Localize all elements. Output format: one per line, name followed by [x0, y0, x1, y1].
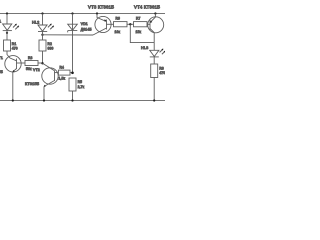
wire HL1 to R1 [6, 30, 8, 40]
svg-text:HL3: HL3 [141, 46, 148, 50]
resistor R4 [58, 70, 70, 75]
label R8 value [159, 66, 165, 75]
LED HL1 [3, 24, 19, 31]
label VD1 [81, 22, 93, 32]
wire VT3 collector to HL2 node [43, 34, 94, 36]
resistor R5 [69, 78, 76, 91]
wire R3 to node B [38, 62, 43, 64]
node HL2 cathode junction [41, 34, 43, 36]
node R8 ground junction [153, 99, 155, 101]
transistor VT3 [93, 14, 114, 36]
transistor VT4 [148, 14, 164, 43]
node VT4 emitter junction [154, 12, 156, 14]
transistor VT1 [5, 56, 25, 73]
label R2 value [48, 42, 54, 51]
wire R6 to node D [127, 23, 134, 25]
wire bottom ground rail [0, 100, 165, 102]
label R6 [115, 16, 121, 33]
wire R5 to ground [72, 91, 74, 101]
svg-text:VT4 КТ361Б: VT4 КТ361Б [134, 4, 160, 9]
resistor R1 [4, 40, 11, 51]
label VT1 (clipped at edge) [0, 56, 3, 60]
svg-text:VT2: VT2 [33, 68, 40, 72]
label HL2 [32, 21, 39, 25]
wire VT4 collector to HL3 [153, 43, 155, 51]
zener diode VD1 [68, 14, 78, 73]
label VT1 type (clipped at edge) [0, 70, 3, 74]
svg-text:470: 470 [12, 46, 18, 50]
svg-text:VD1: VD1 [81, 22, 88, 26]
label R1 value [12, 42, 18, 51]
node HL2 top junction [41, 12, 43, 14]
svg-text:15к: 15к [136, 30, 142, 34]
label R5 value [78, 80, 85, 89]
wire R1 to VT1 collector [7, 51, 17, 61]
wire node D to HL3 node [130, 24, 154, 42]
resistor R6 [114, 22, 128, 27]
wire HL2 anode drop [42, 14, 44, 26]
node D junction R6 R7 feedback [129, 23, 131, 25]
svg-text:1,5к: 1,5к [59, 77, 66, 81]
svg-text:R5: R5 [78, 80, 83, 84]
wire HL3 to R8 [153, 57, 155, 64]
label VT4 type [134, 4, 160, 9]
label KT315B [25, 82, 40, 86]
wire HL2 to R2 [42, 31, 44, 40]
node B junction R2 R3 VT2 collector [41, 62, 43, 64]
wire VT2 emitter to ground [43, 87, 45, 101]
svg-text:10к: 10к [115, 30, 121, 34]
svg-text:470: 470 [159, 71, 165, 75]
svg-text:680: 680 [48, 46, 54, 50]
svg-text:HL2: HL2 [32, 21, 39, 25]
transistor VT2 [42, 63, 59, 87]
LED HL3 [150, 49, 166, 57]
label VT2 [33, 68, 40, 72]
svg-text:R7: R7 [136, 16, 141, 20]
wire R2 to node B [42, 51, 44, 63]
node A junction VD1 R4 R5 [71, 72, 74, 75]
svg-text:R4: R4 [60, 66, 65, 70]
label HL3 [141, 46, 148, 50]
label VT3 type [88, 4, 114, 9]
svg-text:КТ315Б: КТ315Б [25, 82, 40, 86]
svg-text:R2: R2 [48, 42, 53, 46]
resistor R8 [151, 64, 158, 78]
resistor R3 [25, 61, 38, 66]
svg-text:R8: R8 [159, 66, 164, 70]
svg-text:R1: R1 [12, 42, 17, 46]
svg-text:VT1: VT1 [0, 56, 3, 60]
svg-text:Д814Б: Д814Б [81, 28, 93, 32]
resistor R7 [134, 22, 148, 27]
svg-text:56к: 56к [26, 67, 32, 71]
node VT3 emitter junction [96, 12, 98, 14]
svg-text:R3: R3 [28, 56, 33, 60]
node HL1 cathode junction [6, 32, 8, 34]
wire R8 to ground [153, 78, 155, 101]
wire top supply rail [0, 13, 165, 15]
node VT1 emitter ground junction [12, 99, 14, 101]
svg-text:КТ315Б: КТ315Б [0, 70, 3, 74]
node R5 ground junction [71, 99, 73, 101]
node VT2 emitter ground junction [43, 99, 45, 101]
svg-text:HL1: HL1 [0, 20, 1, 24]
wire VT1 emitter to ground [12, 72, 14, 101]
wire R4 to node A [70, 72, 73, 74]
label R7 [136, 16, 142, 33]
wire R7 to VT4 base [147, 23, 150, 25]
label R4 [59, 66, 66, 81]
label HL1 (clipped at edge) [0, 20, 1, 24]
node VD1 top junction [71, 12, 73, 14]
resistor R2 [39, 40, 46, 51]
label R3 [26, 56, 33, 71]
svg-text:2,7к: 2,7к [78, 85, 85, 89]
LED HL2 [38, 24, 54, 32]
svg-text:VT3 КТ361Б: VT3 КТ361Б [88, 4, 114, 9]
svg-text:R6: R6 [116, 16, 121, 20]
node HL1 top junction [6, 12, 8, 14]
wire HL1 anode drop [6, 14, 8, 25]
